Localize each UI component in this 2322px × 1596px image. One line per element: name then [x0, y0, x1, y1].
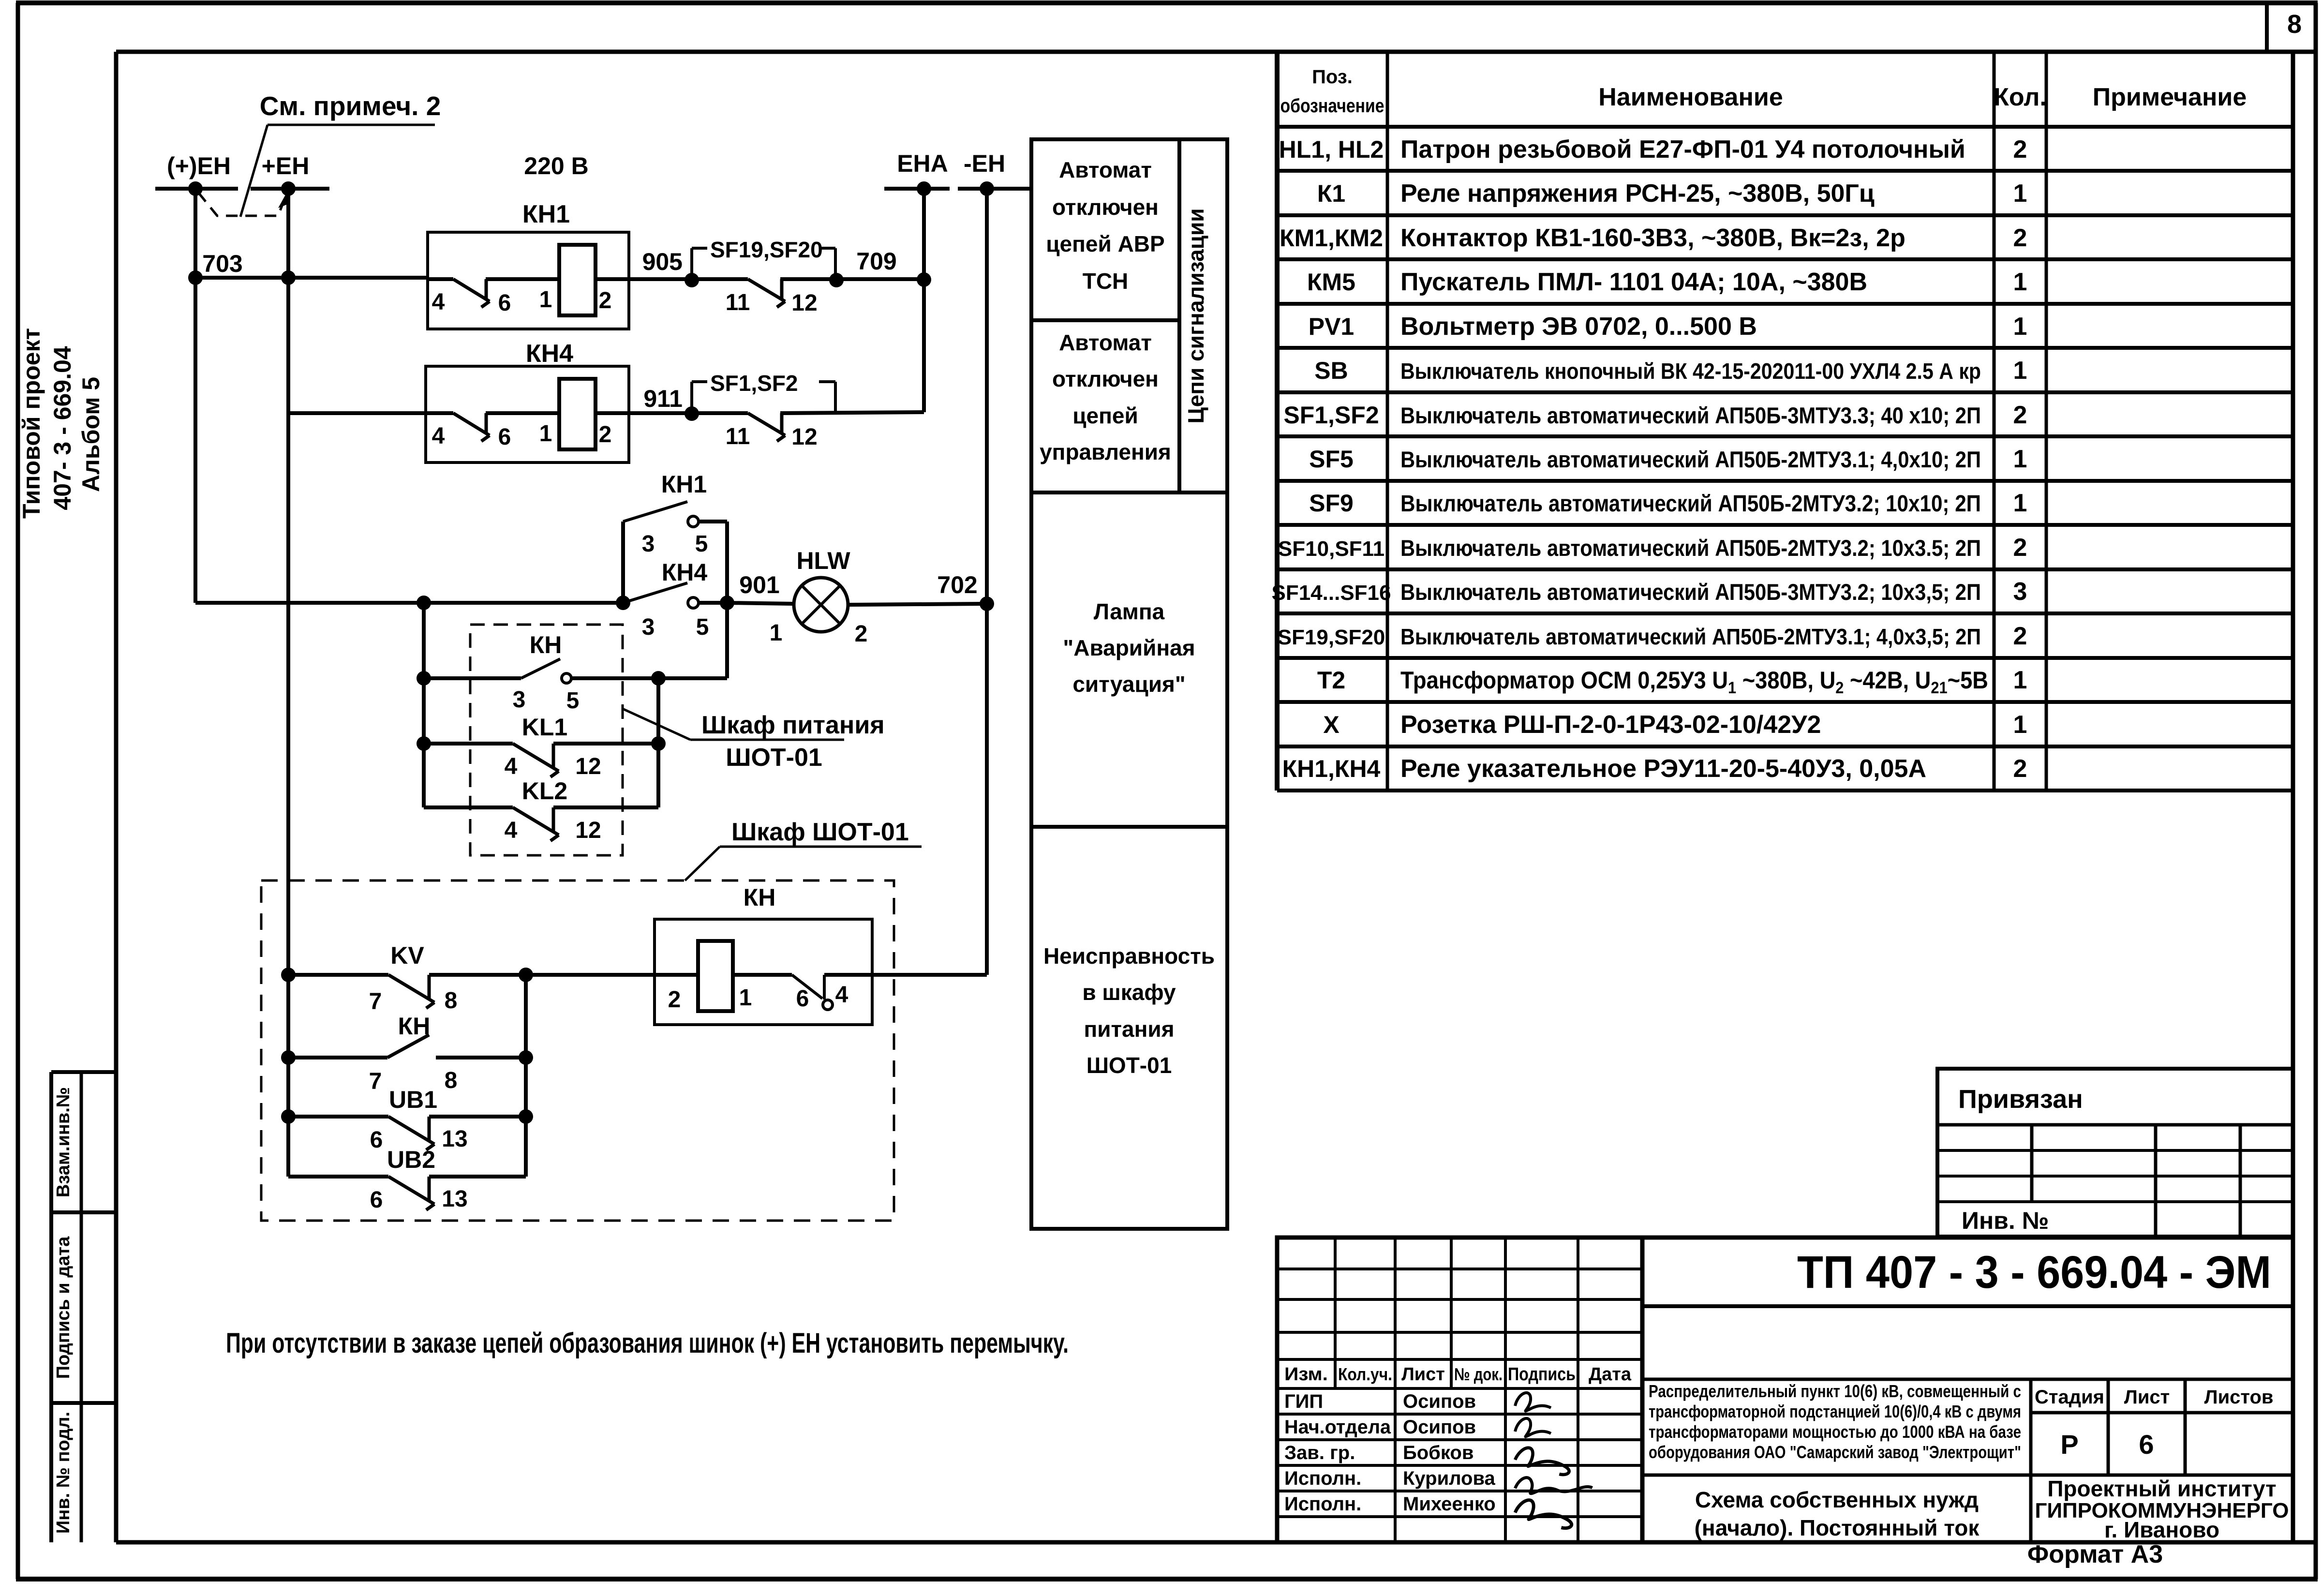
svg-text:Реле указательное РЭУ11-20-5-4: Реле указательное РЭУ11-20-5-40У3, 0,05А: [1400, 755, 1926, 783]
svg-text:Взам.инв.№: Взам.инв.№: [53, 1087, 74, 1197]
svg-text:управления: управления: [1040, 439, 1171, 464]
svg-text:220 В: 220 В: [524, 152, 588, 179]
svg-text:1: 1: [2013, 357, 2027, 385]
svg-text:HL1, HL2: HL1, HL2: [1279, 136, 1384, 163]
svg-text:ТП 407 - 3 - 669.04 - ЭМ: ТП 407 - 3 - 669.04 - ЭМ: [1797, 1247, 2271, 1298]
svg-text:Реле напряжения РСН-25, ~380В,: Реле напряжения РСН-25, ~380В, 50Гц: [1400, 179, 1875, 208]
svg-text:Цепи сигнализации: Цепи сигнализации: [1183, 208, 1208, 423]
svg-text:КН: КН: [398, 1013, 431, 1040]
svg-text:Листов: Листов: [2204, 1387, 2274, 1408]
svg-text:Т2: Т2: [1317, 667, 1345, 694]
svg-text:1: 1: [539, 421, 552, 447]
svg-text:Х: Х: [1323, 711, 1339, 738]
svg-text:901: 901: [739, 571, 779, 598]
svg-text:11: 11: [726, 290, 750, 315]
svg-text:КМ5: КМ5: [1307, 268, 1355, 296]
svg-text:709: 709: [856, 248, 896, 275]
svg-text:Инв. № подл.: Инв. № подл.: [53, 1412, 74, 1534]
svg-text:Инв. №: Инв. №: [1962, 1207, 2049, 1234]
svg-text:KV: KV: [390, 942, 424, 969]
svg-text:Формат А3: Формат А3: [2027, 1540, 2163, 1568]
svg-text:питания: питания: [1084, 1016, 1174, 1042]
svg-text:Схема собственных нужд: Схема собственных нужд: [1695, 1487, 1979, 1512]
svg-text:Исполн.: Исполн.: [1284, 1468, 1361, 1489]
svg-text:8: 8: [445, 1068, 458, 1093]
svg-text:12: 12: [575, 754, 601, 779]
svg-text:Шкаф ШОТ-01: Шкаф ШОТ-01: [731, 818, 909, 846]
svg-text:6: 6: [498, 424, 511, 450]
svg-text:7: 7: [369, 1069, 382, 1094]
svg-text:1: 1: [2013, 313, 2027, 341]
svg-text:4: 4: [432, 289, 445, 315]
svg-text:4: 4: [505, 818, 518, 843]
svg-text:2: 2: [2013, 401, 2027, 429]
svg-text:2: 2: [599, 422, 612, 447]
svg-text:ТСН: ТСН: [1083, 268, 1129, 294]
svg-text:Курилова: Курилова: [1403, 1468, 1496, 1489]
svg-text:КН1: КН1: [661, 471, 707, 498]
svg-text:Пускатель ПМЛ- 1101 04А; 10А,: Пускатель ПМЛ- 1101 04А; 10А, ~380В: [1400, 268, 1867, 296]
svg-text:2: 2: [2013, 755, 2027, 783]
svg-text:Михеенко: Михеенко: [1403, 1493, 1496, 1515]
svg-text:Распределительный пункт 10(6): Распределительный пункт 10(6) кВ, совмещ…: [1649, 1381, 2021, 1401]
svg-text:Изм.: Изм.: [1284, 1364, 1328, 1385]
svg-text:Выключатель автоматический АП5: Выключатель автоматический АП50Б-2МТУ3.2…: [1400, 491, 1981, 517]
svg-text:5: 5: [695, 531, 708, 557]
svg-text:12: 12: [575, 818, 601, 843]
svg-text:12: 12: [791, 290, 817, 316]
svg-text:6: 6: [2139, 1429, 2154, 1460]
svg-text:1: 1: [2013, 711, 2027, 739]
svg-text:отключен: отключен: [1052, 366, 1159, 391]
svg-text:Трансформатор ОСМ 0,25У3 U1 ~3: Трансформатор ОСМ 0,25У3 U1 ~380В, U2 ~4…: [1400, 667, 1988, 697]
svg-text:Шкаф питания: Шкаф питания: [701, 711, 885, 739]
svg-text:4: 4: [835, 982, 848, 1008]
svg-text:КМ1,КМ2: КМ1,КМ2: [1280, 224, 1383, 252]
svg-text:К1: К1: [1317, 180, 1345, 207]
svg-text:SF1,SF2: SF1,SF2: [710, 371, 798, 396]
svg-text:SF5: SF5: [1309, 446, 1354, 473]
svg-text:Осипов: Осипов: [1403, 1417, 1476, 1438]
svg-text:Лампа: Лампа: [1094, 599, 1165, 624]
svg-text:905: 905: [642, 248, 683, 275]
svg-text:трансформаторной подстанцией 1: трансформаторной подстанцией 10(6)/0,4 к…: [1649, 1402, 2021, 1421]
svg-text:Стадия: Стадия: [2035, 1387, 2104, 1408]
svg-text:Примечание: Примечание: [2093, 83, 2247, 111]
svg-text:6: 6: [370, 1127, 383, 1153]
svg-text:Подпись и дата: Подпись и дата: [53, 1236, 74, 1379]
svg-text:Лист: Лист: [2124, 1387, 2170, 1408]
svg-text:4: 4: [432, 423, 445, 449]
svg-text:1: 1: [739, 985, 752, 1011]
svg-text:SF1,SF2: SF1,SF2: [1283, 402, 1379, 429]
svg-text:цепей: цепей: [1072, 403, 1138, 428]
svg-text:Автомат: Автомат: [1059, 157, 1152, 182]
svg-text:Выключатель автоматический АП: Выключатель автоматический АП50Б-3МТУ3.3…: [1400, 403, 1981, 428]
svg-text:3: 3: [642, 614, 655, 640]
svg-text:Привязан: Привязан: [1958, 1085, 2083, 1114]
svg-text:Проектный институт: Проектный институт: [2047, 1476, 2276, 1501]
svg-text:5: 5: [566, 688, 580, 714]
svg-text:Бобков: Бобков: [1403, 1442, 1474, 1463]
svg-text:12: 12: [791, 424, 817, 450]
svg-text:ШОТ-01: ШОТ-01: [1087, 1053, 1172, 1078]
svg-text:2: 2: [2013, 534, 2027, 562]
svg-text:КН4: КН4: [662, 559, 708, 586]
svg-text:6: 6: [796, 986, 809, 1012]
svg-text:407- 3 - 669.04: 407- 3 - 669.04: [49, 346, 76, 510]
svg-text:ГИП: ГИП: [1284, 1391, 1323, 1412]
svg-text:703: 703: [202, 250, 242, 277]
svg-text:Вольтметр ЭВ 0702, 0...500 В: Вольтметр ЭВ 0702, 0...500 В: [1400, 313, 1757, 341]
svg-text:13: 13: [442, 1186, 467, 1212]
svg-text:+ЕН: +ЕН: [262, 152, 310, 179]
svg-text:цепей АВР: цепей АВР: [1046, 231, 1164, 256]
svg-text:KL1: KL1: [522, 714, 567, 741]
svg-text:Автомат: Автомат: [1059, 330, 1152, 355]
svg-text:Подпись: Подпись: [1508, 1364, 1576, 1385]
svg-text:Лист: Лист: [1401, 1364, 1445, 1385]
svg-text:Кол.уч.: Кол.уч.: [1338, 1364, 1392, 1384]
svg-text:Выключатель автоматический АП5: Выключатель автоматический АП50Б-3МТУ3.2…: [1400, 579, 1981, 605]
svg-text:КН1: КН1: [522, 200, 570, 228]
svg-text:1: 1: [2013, 489, 2027, 517]
svg-text:1: 1: [2013, 179, 2027, 208]
svg-text:Нач.отдела: Нач.отдела: [1284, 1417, 1391, 1438]
svg-text:2: 2: [855, 621, 868, 647]
svg-text:ситуация": ситуация": [1072, 671, 1185, 697]
svg-text:Выключатель автоматический АП: Выключатель автоматический АП50Б-2МТУ3.1…: [1400, 624, 1981, 649]
svg-text:Выключатель автоматический АП: Выключатель автоматический АП50Б-2МТУ3.2…: [1400, 535, 1981, 561]
svg-text:6: 6: [498, 290, 511, 316]
svg-text:Р: Р: [2060, 1429, 2078, 1460]
svg-text:Исполн.: Исполн.: [1284, 1493, 1361, 1515]
svg-text:SF10,SF11: SF10,SF11: [1278, 537, 1384, 561]
svg-text:Неисправность: Неисправность: [1043, 943, 1215, 969]
svg-text:11: 11: [726, 424, 750, 449]
svg-text:Кол.: Кол.: [1994, 83, 2047, 111]
svg-text:PV1: PV1: [1309, 313, 1354, 340]
svg-text:3: 3: [513, 687, 526, 713]
svg-text:UB2: UB2: [387, 1146, 435, 1173]
svg-text:ЕНА: ЕНА: [897, 150, 948, 177]
svg-text:Розетка РШ-П-2-0-1Р43-02-10/42: Розетка РШ-П-2-0-1Р43-02-10/42У2: [1400, 711, 1821, 739]
svg-text:1: 1: [539, 287, 552, 313]
svg-text:13: 13: [442, 1126, 467, 1152]
svg-text:№ док.: № док.: [1454, 1364, 1503, 1384]
svg-text:Патрон резьбовой Е27-ФП-01 У4: Патрон резьбовой Е27-ФП-01 У4 потолочный: [1400, 135, 1965, 164]
svg-text:Дата: Дата: [1589, 1364, 1632, 1385]
svg-text:трансформаторами мощностью до: трансформаторами мощностью до 1000 кВА н…: [1649, 1422, 2021, 1442]
svg-text:г. Иваново: г. Иваново: [2104, 1517, 2219, 1542]
svg-text:SF19,SF20: SF19,SF20: [710, 237, 823, 262]
svg-text:оборудования ОАО "Самарский за: оборудования ОАО "Самарский завод "Элект…: [1649, 1442, 2021, 1462]
svg-text:Наименование: Наименование: [1598, 83, 1783, 111]
svg-text:-ЕН: -ЕН: [964, 150, 1005, 177]
svg-text:в шкафу: в шкафу: [1082, 980, 1176, 1005]
svg-text:SF14...SF16: SF14...SF16: [1271, 581, 1391, 605]
svg-text:(+)ЕН: (+)ЕН: [167, 152, 231, 179]
svg-text:SB: SB: [1314, 357, 1348, 384]
svg-text:4: 4: [505, 754, 518, 779]
svg-text:KL2: KL2: [522, 777, 567, 805]
svg-text:См. примеч. 2: См. примеч. 2: [260, 91, 441, 121]
svg-text:SF9: SF9: [1309, 490, 1354, 517]
svg-text:Зав. гр.: Зав. гр.: [1284, 1442, 1355, 1463]
svg-text:Выключатель кнопочный ВК 42-15: Выключатель кнопочный ВК 42-15-202011-00…: [1400, 358, 1981, 384]
svg-text:2: 2: [2013, 622, 2027, 650]
svg-text:1: 1: [2013, 445, 2027, 473]
svg-text:3: 3: [2013, 578, 2027, 606]
svg-text:Поз.: Поз.: [1312, 66, 1353, 88]
svg-text:отключен: отключен: [1052, 194, 1159, 220]
svg-text:При отсутствии в заказе цепей: При отсутствии в заказе цепей образовани…: [226, 1328, 1069, 1359]
svg-text:8: 8: [2287, 10, 2302, 39]
svg-text:"Аварийная: "Аварийная: [1063, 635, 1195, 660]
svg-text:Альбом 5: Альбом 5: [77, 377, 104, 492]
svg-text:КН: КН: [744, 884, 776, 911]
svg-text:1: 1: [770, 620, 783, 646]
svg-text:Выключатель автоматический АП5: Выключатель автоматический АП50Б-2МТУ3.1…: [1400, 447, 1981, 472]
svg-text:5: 5: [696, 614, 709, 640]
svg-text:SF19,SF20: SF19,SF20: [1278, 626, 1385, 649]
svg-text:2: 2: [668, 987, 681, 1013]
svg-text:2: 2: [599, 288, 612, 313]
svg-text:КН1,КН4: КН1,КН4: [1282, 755, 1381, 782]
svg-text:(начало). Постоянный ток: (начало). Постоянный ток: [1695, 1515, 1980, 1540]
svg-text:КН: КН: [530, 631, 562, 658]
svg-text:ШОТ-01: ШОТ-01: [726, 744, 822, 772]
svg-text:1: 1: [2013, 268, 2027, 296]
svg-text:КН4: КН4: [526, 340, 573, 368]
svg-text:Осипов: Осипов: [1403, 1391, 1476, 1412]
svg-text:HLW: HLW: [796, 547, 850, 574]
svg-text:Контактор КВ1-160-3В3, ~380В,: Контактор КВ1-160-3В3, ~380В, Вк=2з, 2р: [1400, 224, 1905, 252]
svg-text:911: 911: [643, 385, 683, 412]
svg-text:2: 2: [2013, 135, 2027, 164]
svg-text:UB1: UB1: [389, 1086, 437, 1113]
svg-text:7: 7: [369, 989, 382, 1014]
svg-text:6: 6: [370, 1187, 383, 1213]
svg-text:обозначение: обозначение: [1280, 95, 1384, 117]
svg-text:3: 3: [642, 531, 655, 557]
svg-text:1: 1: [2013, 666, 2027, 694]
svg-text:8: 8: [445, 988, 458, 1014]
svg-text:2: 2: [2013, 224, 2027, 252]
svg-text:Типовой проект: Типовой проект: [18, 328, 45, 519]
svg-text:702: 702: [937, 571, 977, 598]
